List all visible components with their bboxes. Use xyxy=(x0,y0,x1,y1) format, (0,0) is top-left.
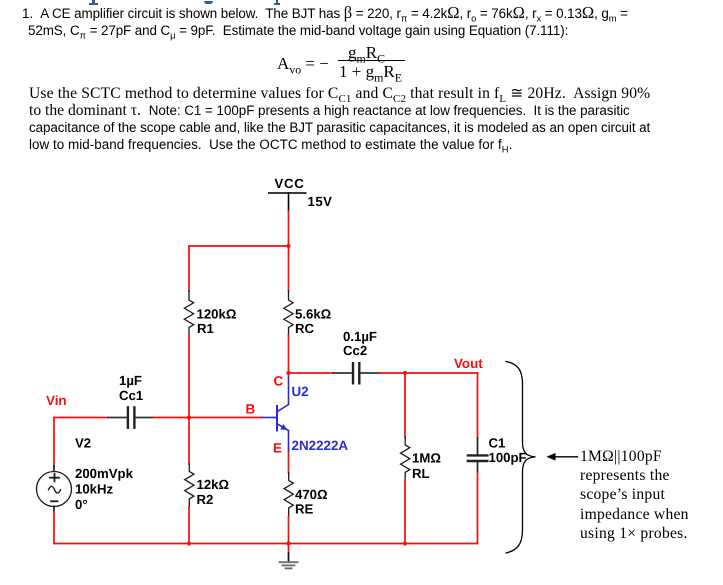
svg-text:V2: V2 xyxy=(75,436,91,451)
svg-text:470Ω: 470Ω xyxy=(295,487,328,502)
wire Cc2 to Vout corner (red) xyxy=(379,372,478,374)
svg-text:12kΩ: 12kΩ xyxy=(197,477,230,492)
equation denominator xyxy=(339,62,402,85)
equation A_vo xyxy=(277,54,329,77)
wire source bottom stub (black) xyxy=(53,507,55,513)
wire source bottom lead xyxy=(53,512,55,544)
svg-text:120kΩ: 120kΩ xyxy=(197,307,237,322)
svg-text:0.1µF: 0.1µF xyxy=(343,329,377,344)
svg-text:C: C xyxy=(274,374,284,389)
capacitor Cc1 xyxy=(128,407,134,427)
label U2 xyxy=(292,384,309,399)
label C (collector) xyxy=(274,374,284,389)
label 15V xyxy=(308,194,333,209)
svg-text:Cc2: Cc2 xyxy=(343,343,367,358)
cropped blue heading descenders xyxy=(89,3,99,5)
capacitor Cc2 xyxy=(353,363,359,383)
label RC xyxy=(295,321,315,336)
label 0° xyxy=(75,497,88,512)
svg-text:C1: C1 xyxy=(489,436,506,451)
wire emitter to RE (red) xyxy=(288,451,290,473)
label Cc1 xyxy=(119,388,143,403)
svg-text:200mVpk: 200mVpk xyxy=(75,466,134,481)
label Vout xyxy=(454,356,483,371)
wire Cc1 left stub (black) xyxy=(108,417,127,419)
wire Cc1 right stub (black) xyxy=(136,417,154,419)
equation numerator xyxy=(348,43,385,66)
svg-text:VCC: VCC xyxy=(275,176,305,191)
wire Cc1 to base (red) xyxy=(154,417,262,419)
wire RC top lead xyxy=(288,246,290,291)
wire R2 top lead xyxy=(188,418,190,465)
svg-text:R2: R2 xyxy=(197,492,214,507)
label 5.6kΩ xyxy=(295,307,332,322)
resistor R1 xyxy=(184,291,193,335)
paragraph line 2 xyxy=(28,23,568,41)
svg-text:E: E xyxy=(273,441,282,456)
node top rail junction xyxy=(286,244,290,248)
svg-text:B: B xyxy=(246,402,256,417)
paragraph line 4 (serif then sans) xyxy=(29,102,630,120)
label 120kΩ xyxy=(197,307,237,322)
svg-text:Cc1: Cc1 xyxy=(119,388,143,403)
paragraph line 6 xyxy=(29,137,512,155)
label Vin xyxy=(46,393,67,408)
label 10kHz xyxy=(75,482,114,497)
svg-text:15V: 15V xyxy=(308,194,333,209)
wire Cc2 left stub (black) xyxy=(333,372,352,374)
label 470Ω xyxy=(295,487,328,502)
label RL xyxy=(412,466,430,481)
svg-text:R1: R1 xyxy=(197,321,214,336)
svg-text:1µF: 1µF xyxy=(119,373,142,388)
wire ground stub (red) xyxy=(288,544,290,554)
annotation brace xyxy=(506,362,536,554)
node collector junction xyxy=(286,371,290,375)
wire bottom rail xyxy=(54,543,478,545)
wire RE bottom lead xyxy=(288,517,290,544)
wire RC bottom lead to collector node xyxy=(288,335,290,373)
label 100pF xyxy=(489,450,527,465)
svg-text:1MΩ: 1MΩ xyxy=(412,451,441,466)
resistor RC xyxy=(284,291,293,335)
wire Vout corner down to C1 xyxy=(477,373,479,438)
resistor RE xyxy=(284,473,293,517)
transistor U2 2N2222A xyxy=(262,376,289,451)
label 200mVpk xyxy=(75,466,134,481)
svg-text:0°: 0° xyxy=(75,497,88,512)
paragraph line 5 xyxy=(29,120,650,135)
wire C1 top stub (black) xyxy=(477,438,479,454)
label 1µF xyxy=(119,373,142,388)
side note text xyxy=(580,447,689,543)
svg-text:2N2222A: 2N2222A xyxy=(292,438,349,453)
node RL bottom junction xyxy=(403,541,407,545)
power symbol VCC xyxy=(269,192,306,194)
wire VCC to top node (red) xyxy=(288,211,290,246)
svg-text:RL: RL xyxy=(412,466,430,481)
equation fraction bar xyxy=(338,60,405,61)
wire R1 bottom lead to base node xyxy=(188,335,190,418)
wire R1 top lead xyxy=(188,246,190,291)
wire source top stub (black) xyxy=(53,466,55,472)
svg-text:Vin: Vin xyxy=(46,393,67,408)
wire VCC stem (black) xyxy=(288,193,290,211)
paragraph line 1 xyxy=(22,5,628,24)
svg-text:RE: RE xyxy=(295,502,314,517)
label V2 xyxy=(75,436,91,451)
paragraph line 3 (serif) xyxy=(29,84,650,105)
capacitor C1 xyxy=(468,455,487,461)
label 12kΩ xyxy=(197,477,230,492)
wire RL bottom lead xyxy=(404,480,406,543)
wire C1 to bottom rail (red) xyxy=(477,473,479,544)
label B (base) xyxy=(246,402,256,417)
label 1MΩ xyxy=(412,451,441,466)
source V2 xyxy=(37,472,72,507)
svg-text:10kHz: 10kHz xyxy=(75,482,114,497)
wire RL top lead xyxy=(404,373,406,437)
label 2N2222A xyxy=(292,438,349,453)
svg-text:RC: RC xyxy=(295,321,315,336)
wire source top lead xyxy=(53,418,55,467)
label 0.1µF xyxy=(343,329,377,344)
wire top rail to R1 xyxy=(189,245,289,247)
label C1 xyxy=(489,436,506,451)
label VCC xyxy=(275,176,305,191)
node RL top junction xyxy=(403,371,407,375)
label R2 xyxy=(197,492,214,507)
wire Cc2 right stub (black) xyxy=(361,372,379,374)
resistor RL xyxy=(401,437,410,480)
label Cc2 xyxy=(343,343,367,358)
svg-text:Vout: Vout xyxy=(454,356,483,371)
label E (emitter) xyxy=(273,441,282,456)
annotation arrow xyxy=(547,453,578,461)
node R2 bottom junction xyxy=(187,541,191,545)
label RE xyxy=(295,502,314,517)
wire collector node to Cc2 (red) xyxy=(289,372,334,374)
svg-text:5.6kΩ: 5.6kΩ xyxy=(295,307,332,322)
node RE bottom junction xyxy=(286,541,290,545)
wire Vin corner to Cc1 (red) xyxy=(54,417,108,419)
node base divider junction xyxy=(187,415,191,419)
ground xyxy=(280,553,298,568)
label R1 xyxy=(197,321,214,336)
resistor R2 xyxy=(185,464,194,506)
svg-text:100pF: 100pF xyxy=(489,450,527,465)
wire C1 bottom stub (black) xyxy=(477,462,479,473)
svg-text:U2: U2 xyxy=(292,384,309,399)
wire R2 bottom lead xyxy=(188,506,190,543)
